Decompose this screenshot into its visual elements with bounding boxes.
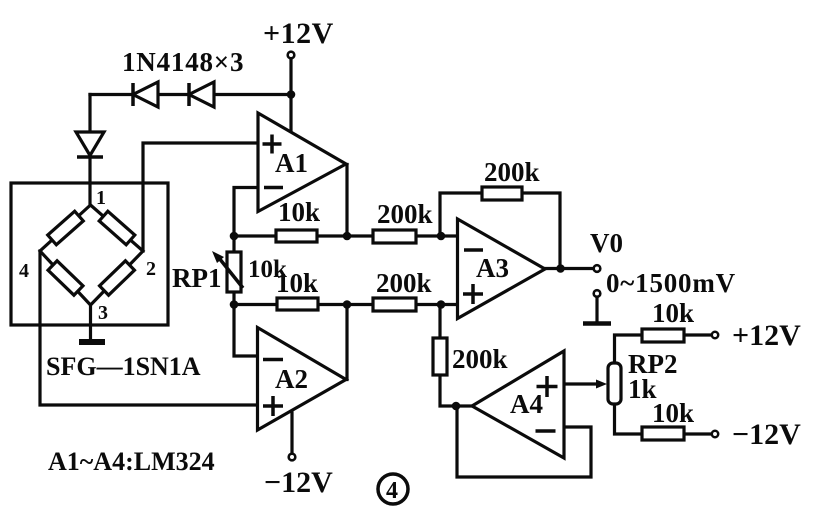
- junction dot A3 + node: [437, 300, 446, 309]
- op-amp A1: [258, 113, 346, 212]
- A2 plus sign: [263, 396, 283, 416]
- diode D2 1N4148: [189, 82, 214, 107]
- wire 10k to -12V terminal: [684, 432, 711, 435]
- svg-text:RP1: RP1: [172, 263, 222, 293]
- resistor 10k row2: [277, 298, 318, 310]
- terminal ground circle: [594, 290, 601, 297]
- bridge sensor box: [11, 183, 168, 325]
- junction dot A2 out: [343, 300, 352, 309]
- terminal +12V top: [288, 52, 295, 59]
- svg-text:200k: 200k: [377, 199, 433, 229]
- wire A1 - input stub: [234, 188, 258, 237]
- resistor 10k row1: [276, 230, 317, 242]
- terminal +12V right: [712, 332, 718, 338]
- svg-text:−12V: −12V: [264, 466, 333, 499]
- svg-text:2: 2: [146, 258, 156, 280]
- bridge diamond: [40, 205, 143, 305]
- svg-text:1: 1: [96, 187, 106, 209]
- potentiometer RP2 body: [608, 363, 621, 404]
- junction dot A4 out: [452, 402, 461, 411]
- svg-text:+12V: +12V: [732, 319, 801, 352]
- junction dot A3 out: [556, 264, 565, 273]
- svg-text:SFG—1SN1A: SFG—1SN1A: [46, 352, 201, 381]
- op-amp A4: [472, 351, 564, 458]
- resistor 200k vertical: [433, 338, 447, 375]
- svg-text:0~1500mV: 0~1500mV: [606, 268, 736, 298]
- bridge arm resistor top-right: [99, 211, 135, 245]
- svg-text:V0: V0: [590, 228, 623, 258]
- diode D1 1N4148: [133, 82, 158, 107]
- ground at node 3: [89, 305, 92, 341]
- wire A4 feedback loop: [457, 406, 591, 477]
- svg-text:−12V: −12V: [732, 418, 801, 451]
- bridge arm resistor bottom-left: [48, 261, 83, 295]
- junction dot row2 left: [230, 300, 239, 309]
- wire A3 output: [545, 267, 594, 270]
- wire A1 output drop: [345, 165, 348, 237]
- figure number circle 4: [378, 474, 408, 504]
- wire RP2 bottom to 10k: [615, 404, 643, 434]
- svg-text:200k: 200k: [376, 268, 432, 298]
- resistor 200k row2: [373, 298, 416, 311]
- terminal -12V right: [712, 431, 718, 437]
- junction dot A3 - node: [437, 232, 446, 241]
- junction dot A1 out: [343, 232, 352, 241]
- svg-text:10k: 10k: [276, 268, 318, 298]
- wire bridge node4 to A2 + input: [40, 251, 258, 405]
- junction dot diode row: [287, 90, 296, 99]
- terminal -12V A2: [289, 454, 296, 461]
- svg-text:A3: A3: [476, 253, 509, 283]
- A1 plus sign: [263, 135, 282, 154]
- svg-text:A1~A4:LM324: A1~A4:LM324: [48, 447, 215, 476]
- A4 minus sign: [536, 429, 556, 433]
- ground under V0: [595, 297, 598, 320]
- potentiometer RP1 arrow: [219, 258, 243, 288]
- wire A2 power to -12V: [290, 413, 293, 453]
- resistor 10k bottom right: [642, 427, 684, 440]
- svg-text:200k: 200k: [452, 344, 508, 374]
- wire row1: [234, 234, 458, 237]
- resistor 10k top right: [642, 329, 684, 342]
- wire diode row: [90, 93, 291, 96]
- svg-text:10k: 10k: [652, 298, 694, 328]
- svg-text:+12V: +12V: [263, 17, 334, 50]
- wire left drop to bridge node 1: [88, 95, 91, 206]
- bridge arm resistor bottom-right: [100, 261, 135, 295]
- wire A4 + to RP2 wiper: [564, 382, 600, 385]
- svg-text:A1: A1: [275, 148, 308, 178]
- wire RP2 top to 10k: [615, 335, 643, 363]
- wire A2 output riser: [345, 305, 348, 380]
- junction dot row1 left: [230, 232, 239, 241]
- resistor 200k feedback: [482, 187, 522, 200]
- diode D3 1N4148 vertical: [76, 132, 104, 157]
- svg-text:4: 4: [386, 478, 398, 504]
- terminal V0: [594, 265, 601, 272]
- potentiometer RP1 body: [227, 252, 241, 292]
- wire A3 + node drop through 200k to A4 node: [440, 305, 472, 407]
- svg-text:10k: 10k: [652, 398, 694, 428]
- wire 10k to +12V terminal: [684, 333, 712, 336]
- svg-text:4: 4: [19, 260, 29, 282]
- svg-text:3: 3: [98, 302, 108, 324]
- resistor 200k row1: [373, 230, 416, 243]
- A3 plus sign: [463, 284, 483, 304]
- bridge arm resistor top-left: [48, 211, 84, 245]
- RP2 wiper arrowhead: [596, 380, 607, 389]
- wire RP1 branch: [232, 236, 235, 305]
- A2 minus sign: [263, 358, 283, 362]
- svg-text:200k: 200k: [484, 157, 540, 187]
- wire A3 feedback loop: [440, 193, 560, 269]
- op-amp A2: [258, 328, 347, 431]
- A1 minus sign: [264, 186, 283, 190]
- wire A2 - input stub: [234, 305, 258, 357]
- svg-text:A2: A2: [275, 364, 308, 394]
- svg-text:1N4148×3: 1N4148×3: [122, 47, 244, 77]
- svg-text:A4: A4: [510, 389, 543, 419]
- wire row2: [234, 303, 458, 306]
- A3 minus sign: [464, 248, 483, 252]
- svg-text:10k: 10k: [278, 197, 320, 227]
- A4 plus sign: [537, 376, 558, 397]
- op-amp A3: [458, 219, 546, 319]
- wire +12V drop to A1 power: [289, 59, 292, 132]
- wire node2 riser to A1 + input: [143, 143, 258, 251]
